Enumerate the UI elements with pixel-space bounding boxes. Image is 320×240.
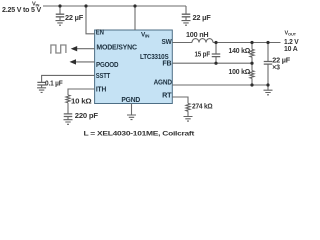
svg-text:PGND: PGND [121,95,140,104]
svg-text:10 kΩ: 10 kΩ [71,99,92,106]
svg-text:VOUT: VOUT [285,31,297,37]
svg-text:PGOOD: PGOOD [96,60,118,69]
svg-text:AGND: AGND [154,77,172,86]
svg-text:140 kΩ: 140 kΩ [229,48,251,55]
svg-text:EN: EN [96,28,104,37]
svg-text:100 nH: 100 nH [186,32,209,39]
svg-text:RT: RT [162,91,172,100]
svg-text:SSTT: SSTT [96,71,111,80]
svg-text:22 µF: 22 µF [193,15,212,22]
svg-text:100 kΩ: 100 kΩ [229,69,251,76]
svg-text:22 µF: 22 µF [65,15,84,22]
svg-text:15 pF: 15 pF [195,52,211,59]
svg-text:2.25 V to 5 V: 2.25 V to 5 V [2,7,42,14]
svg-text:220 pF: 220 pF [75,113,99,120]
svg-text:ITH: ITH [96,84,106,93]
svg-text:10 A: 10 A [284,46,298,53]
svg-text:MODE/SYNC: MODE/SYNC [96,42,136,51]
svg-text:FB: FB [162,58,171,67]
svg-text:0.1 µF: 0.1 µF [45,80,63,87]
svg-text:×3: ×3 [272,64,280,71]
svg-text:L = XEL4030-101ME, Coilcraft: L = XEL4030-101ME, Coilcraft [84,131,195,138]
svg-text:274 kΩ: 274 kΩ [192,104,213,111]
svg-text:SW: SW [162,37,172,46]
